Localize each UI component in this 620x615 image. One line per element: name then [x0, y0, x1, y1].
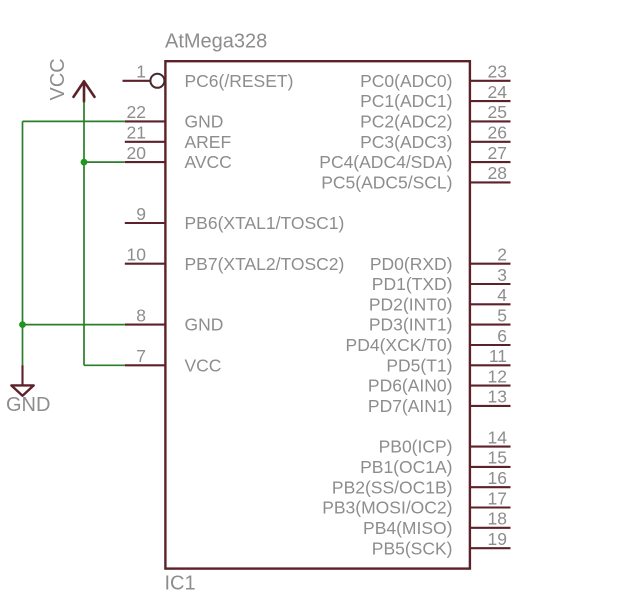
- svg-text:PD1(TXD): PD1(TXD): [372, 274, 453, 294]
- pin 17 PB3(MOSI/OC2): [322, 488, 510, 517]
- svg-text:PC0(ADC0): PC0(ADC0): [360, 71, 452, 91]
- pin 15 PB1(OC1A): [360, 448, 510, 477]
- pin 25 PC2(ADC2): [360, 102, 510, 131]
- svg-text:PB0(ICP): PB0(ICP): [379, 437, 453, 457]
- VCC supply symbol P+1: [47, 58, 95, 101]
- svg-text:7: 7: [136, 346, 146, 366]
- svg-text:20: 20: [127, 143, 147, 163]
- svg-text:11: 11: [489, 346, 507, 366]
- svg-text:PB1(OC1A): PB1(OC1A): [360, 457, 452, 477]
- svg-text:GND: GND: [185, 315, 224, 335]
- junction net GND at pin8 wire: [19, 321, 26, 328]
- wire net VCC: pin20 AVCC horizontal: [84, 161, 125, 163]
- wire net GND: pin22 horizontal: [23, 120, 125, 122]
- pin 5 PD3(INT1): [369, 305, 511, 334]
- svg-text:18: 18: [488, 509, 507, 529]
- pin 8 GND: [125, 305, 224, 334]
- svg-text:AREF: AREF: [185, 132, 232, 152]
- svg-text:PD2(INT0): PD2(INT0): [369, 294, 453, 314]
- svg-text:28: 28: [488, 163, 507, 183]
- svg-text:PD0(RXD): PD0(RXD): [370, 254, 453, 274]
- svg-text:16: 16: [488, 468, 507, 488]
- pin 20 AVCC: [125, 143, 232, 172]
- pin 13 PD7(AIN1): [368, 387, 511, 416]
- svg-text:PB3(MOSI/OC2): PB3(MOSI/OC2): [322, 498, 452, 518]
- svg-text:PD7(AIN1): PD7(AIN1): [368, 396, 453, 416]
- GND supply symbol: [6, 365, 50, 416]
- svg-text:PC5(ADC5/SCL): PC5(ADC5/SCL): [321, 173, 452, 193]
- svg-text:PB7(XTAL2/TOSC2): PB7(XTAL2/TOSC2): [185, 254, 345, 274]
- wire net GND: left vertical: [22, 121, 24, 365]
- svg-text:9: 9: [136, 204, 146, 224]
- svg-text:PD5(T1): PD5(T1): [386, 355, 452, 375]
- pin 4 PD2(INT0): [369, 285, 511, 314]
- pin 3 PD1(TXD): [372, 265, 511, 294]
- wire net VCC: vertical from supply: [83, 102, 85, 366]
- svg-text:PB6(XTAL1/TOSC1): PB6(XTAL1/TOSC1): [185, 213, 345, 233]
- svg-text:25: 25: [488, 102, 507, 122]
- pin 22 GND: [125, 102, 224, 131]
- pin 19 PB5(SCK): [372, 529, 511, 558]
- junction net VCC at AVCC wire: [81, 159, 88, 166]
- svg-text:AVCC: AVCC: [185, 152, 232, 172]
- svg-text:14: 14: [488, 427, 508, 447]
- svg-text:PD6(AIN0): PD6(AIN0): [368, 376, 453, 396]
- svg-text:6: 6: [497, 326, 507, 346]
- wire net GND: pin8 horizontal: [23, 324, 125, 326]
- svg-text:PB2(SS/OC1B): PB2(SS/OC1B): [332, 477, 453, 497]
- pin 2 PD0(RXD): [370, 245, 511, 274]
- pin 23 PC0(ADC0): [360, 62, 510, 91]
- svg-text:23: 23: [488, 62, 507, 82]
- svg-text:22: 22: [127, 102, 146, 122]
- svg-text:PD3(INT1): PD3(INT1): [369, 315, 453, 335]
- svg-text:PD4(XCK/T0): PD4(XCK/T0): [346, 335, 453, 355]
- svg-text:AtMega328: AtMega328: [165, 31, 267, 53]
- wire net VCC: pin7 horizontal: [84, 364, 125, 366]
- svg-text:1: 1: [136, 62, 146, 82]
- pin 28 PC5(ADC5/SCL): [321, 163, 510, 192]
- pin 16 PB2(SS/OC1B): [332, 468, 511, 497]
- svg-text:8: 8: [136, 305, 146, 325]
- svg-text:GND: GND: [185, 112, 224, 132]
- svg-text:17: 17: [488, 488, 507, 508]
- svg-text:PB4(MISO): PB4(MISO): [363, 518, 452, 538]
- svg-text:GND: GND: [6, 394, 50, 416]
- svg-text:PC3(ADC3): PC3(ADC3): [360, 132, 452, 152]
- svg-text:27: 27: [488, 143, 507, 163]
- pin 11 PD5(T1): [386, 346, 510, 375]
- svg-text:2: 2: [497, 245, 507, 265]
- svg-text:IC1: IC1: [165, 573, 196, 595]
- svg-text:21: 21: [127, 123, 146, 143]
- svg-text:26: 26: [488, 123, 507, 143]
- pin 10 PB7(XTAL2/TOSC2): [125, 245, 345, 274]
- pin 14 PB0(ICP): [379, 427, 511, 456]
- pin 12 PD6(AIN0): [368, 366, 511, 395]
- pin 7 VCC: [125, 346, 222, 375]
- svg-text:PB5(SCK): PB5(SCK): [372, 538, 453, 558]
- pin 6 PD4(XCK/T0): [346, 326, 511, 355]
- svg-text:19: 19: [488, 529, 507, 549]
- svg-text:PC2(ADC2): PC2(ADC2): [360, 112, 452, 132]
- svg-text:13: 13: [488, 387, 507, 407]
- pin 24 PC1(ADC1): [360, 82, 510, 111]
- pin 21 AREF: [125, 123, 231, 152]
- pin 18 PB4(MISO): [363, 509, 510, 538]
- svg-text:15: 15: [488, 448, 507, 468]
- svg-text:3: 3: [497, 265, 507, 285]
- svg-text:PC6(/RESET): PC6(/RESET): [185, 71, 294, 91]
- svg-text:10: 10: [127, 245, 147, 265]
- pin 9 PB6(XTAL1/TOSC1): [125, 204, 345, 233]
- svg-text:24: 24: [488, 82, 508, 102]
- pin 27 PC4(ADC4/SDA): [319, 143, 510, 172]
- svg-text:VCC: VCC: [47, 58, 69, 100]
- pin 26 PC3(ADC3): [360, 123, 510, 152]
- svg-text:VCC: VCC: [185, 355, 222, 375]
- svg-text:5: 5: [497, 305, 507, 325]
- svg-text:12: 12: [488, 366, 507, 386]
- pin 1 PC6(/RESET): [123, 62, 294, 91]
- IC IC1 body (ATmega328): [165, 61, 470, 568]
- svg-text:4: 4: [497, 285, 507, 305]
- svg-text:PC1(ADC1): PC1(ADC1): [360, 91, 452, 111]
- svg-text:PC4(ADC4/SDA): PC4(ADC4/SDA): [319, 152, 452, 172]
